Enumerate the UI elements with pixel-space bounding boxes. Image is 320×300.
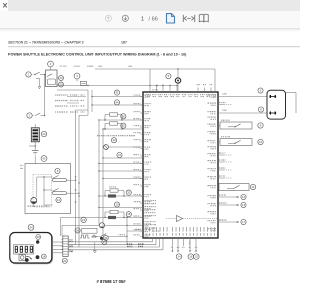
svg-text:12: 12 <box>57 198 61 202</box>
svg-text:8: 8 <box>57 169 59 173</box>
svg-text:+12VDC: +12VDC <box>73 66 81 68</box>
svg-text:12 VDC: 12 VDC <box>152 89 159 91</box>
svg-text:26: 26 <box>76 228 80 232</box>
svg-text:42: 42 <box>42 157 46 161</box>
svg-text:10: 10 <box>259 140 263 144</box>
svg-text:5: 5 <box>168 74 170 78</box>
svg-text:30: 30 <box>127 191 131 195</box>
svg-text:C2B8: C2B8 <box>222 94 227 96</box>
svg-text:17: 17 <box>242 220 246 224</box>
svg-text:14: 14 <box>177 255 181 259</box>
svg-text:11: 11 <box>252 185 255 189</box>
svg-text:13: 13 <box>242 203 246 207</box>
svg-text:4: 4 <box>76 74 78 78</box>
svg-text:LINK: LINK <box>128 66 133 68</box>
svg-text:POWER SHUTTLE ELECTRONIC CONTR: POWER SHUTTLE ELECTRONIC CONTROL UNIT IN… <box>8 53 187 57</box>
svg-text:9: 9 <box>260 124 262 128</box>
svg-text:41: 41 <box>115 91 119 95</box>
svg-text:+12 VDC: +12 VDC <box>59 66 67 68</box>
svg-text:12: 12 <box>242 195 246 199</box>
svg-text:SECTION 21 -- TRANSMISSIONS --: SECTION 21 -- TRANSMISSIONS -- CHAPTER 3 <box>8 41 84 45</box>
svg-text:15: 15 <box>195 255 199 259</box>
svg-text:2: 2 <box>29 114 31 118</box>
svg-text:187: 187 <box>121 41 127 45</box>
svg-text:20: 20 <box>63 259 67 263</box>
svg-text:44: 44 <box>115 100 119 104</box>
svg-text:43: 43 <box>42 132 46 136</box>
svg-text:23: 23 <box>82 218 86 222</box>
svg-text:8: 8 <box>260 108 262 112</box>
svg-text:3: 3 <box>50 62 52 66</box>
svg-text:# 87698 17 05#: # 87698 17 05# <box>97 279 127 284</box>
svg-text:34: 34 <box>29 225 33 229</box>
svg-text:18: 18 <box>37 235 41 239</box>
svg-text:18: 18 <box>127 212 131 216</box>
svg-text:C2B8: C2B8 <box>222 110 227 112</box>
svg-text:33: 33 <box>112 138 116 142</box>
svg-text:16: 16 <box>189 255 193 259</box>
svg-text:14: 14 <box>42 255 46 259</box>
svg-text:31: 31 <box>118 153 122 157</box>
svg-text:1: 1 <box>28 73 30 77</box>
svg-text:LINK: LINK <box>98 66 103 68</box>
svg-text:1: 1 <box>141 16 144 22</box>
svg-text:15: 15 <box>122 124 126 128</box>
svg-text:FUSED: FUSED <box>87 66 94 68</box>
svg-text:20: 20 <box>59 83 63 87</box>
svg-text:10: 10 <box>59 76 63 80</box>
svg-text:/ 66: / 66 <box>149 16 158 22</box>
svg-text:6: 6 <box>260 89 262 93</box>
svg-text:16: 16 <box>122 114 126 118</box>
svg-text:19: 19 <box>115 203 119 207</box>
